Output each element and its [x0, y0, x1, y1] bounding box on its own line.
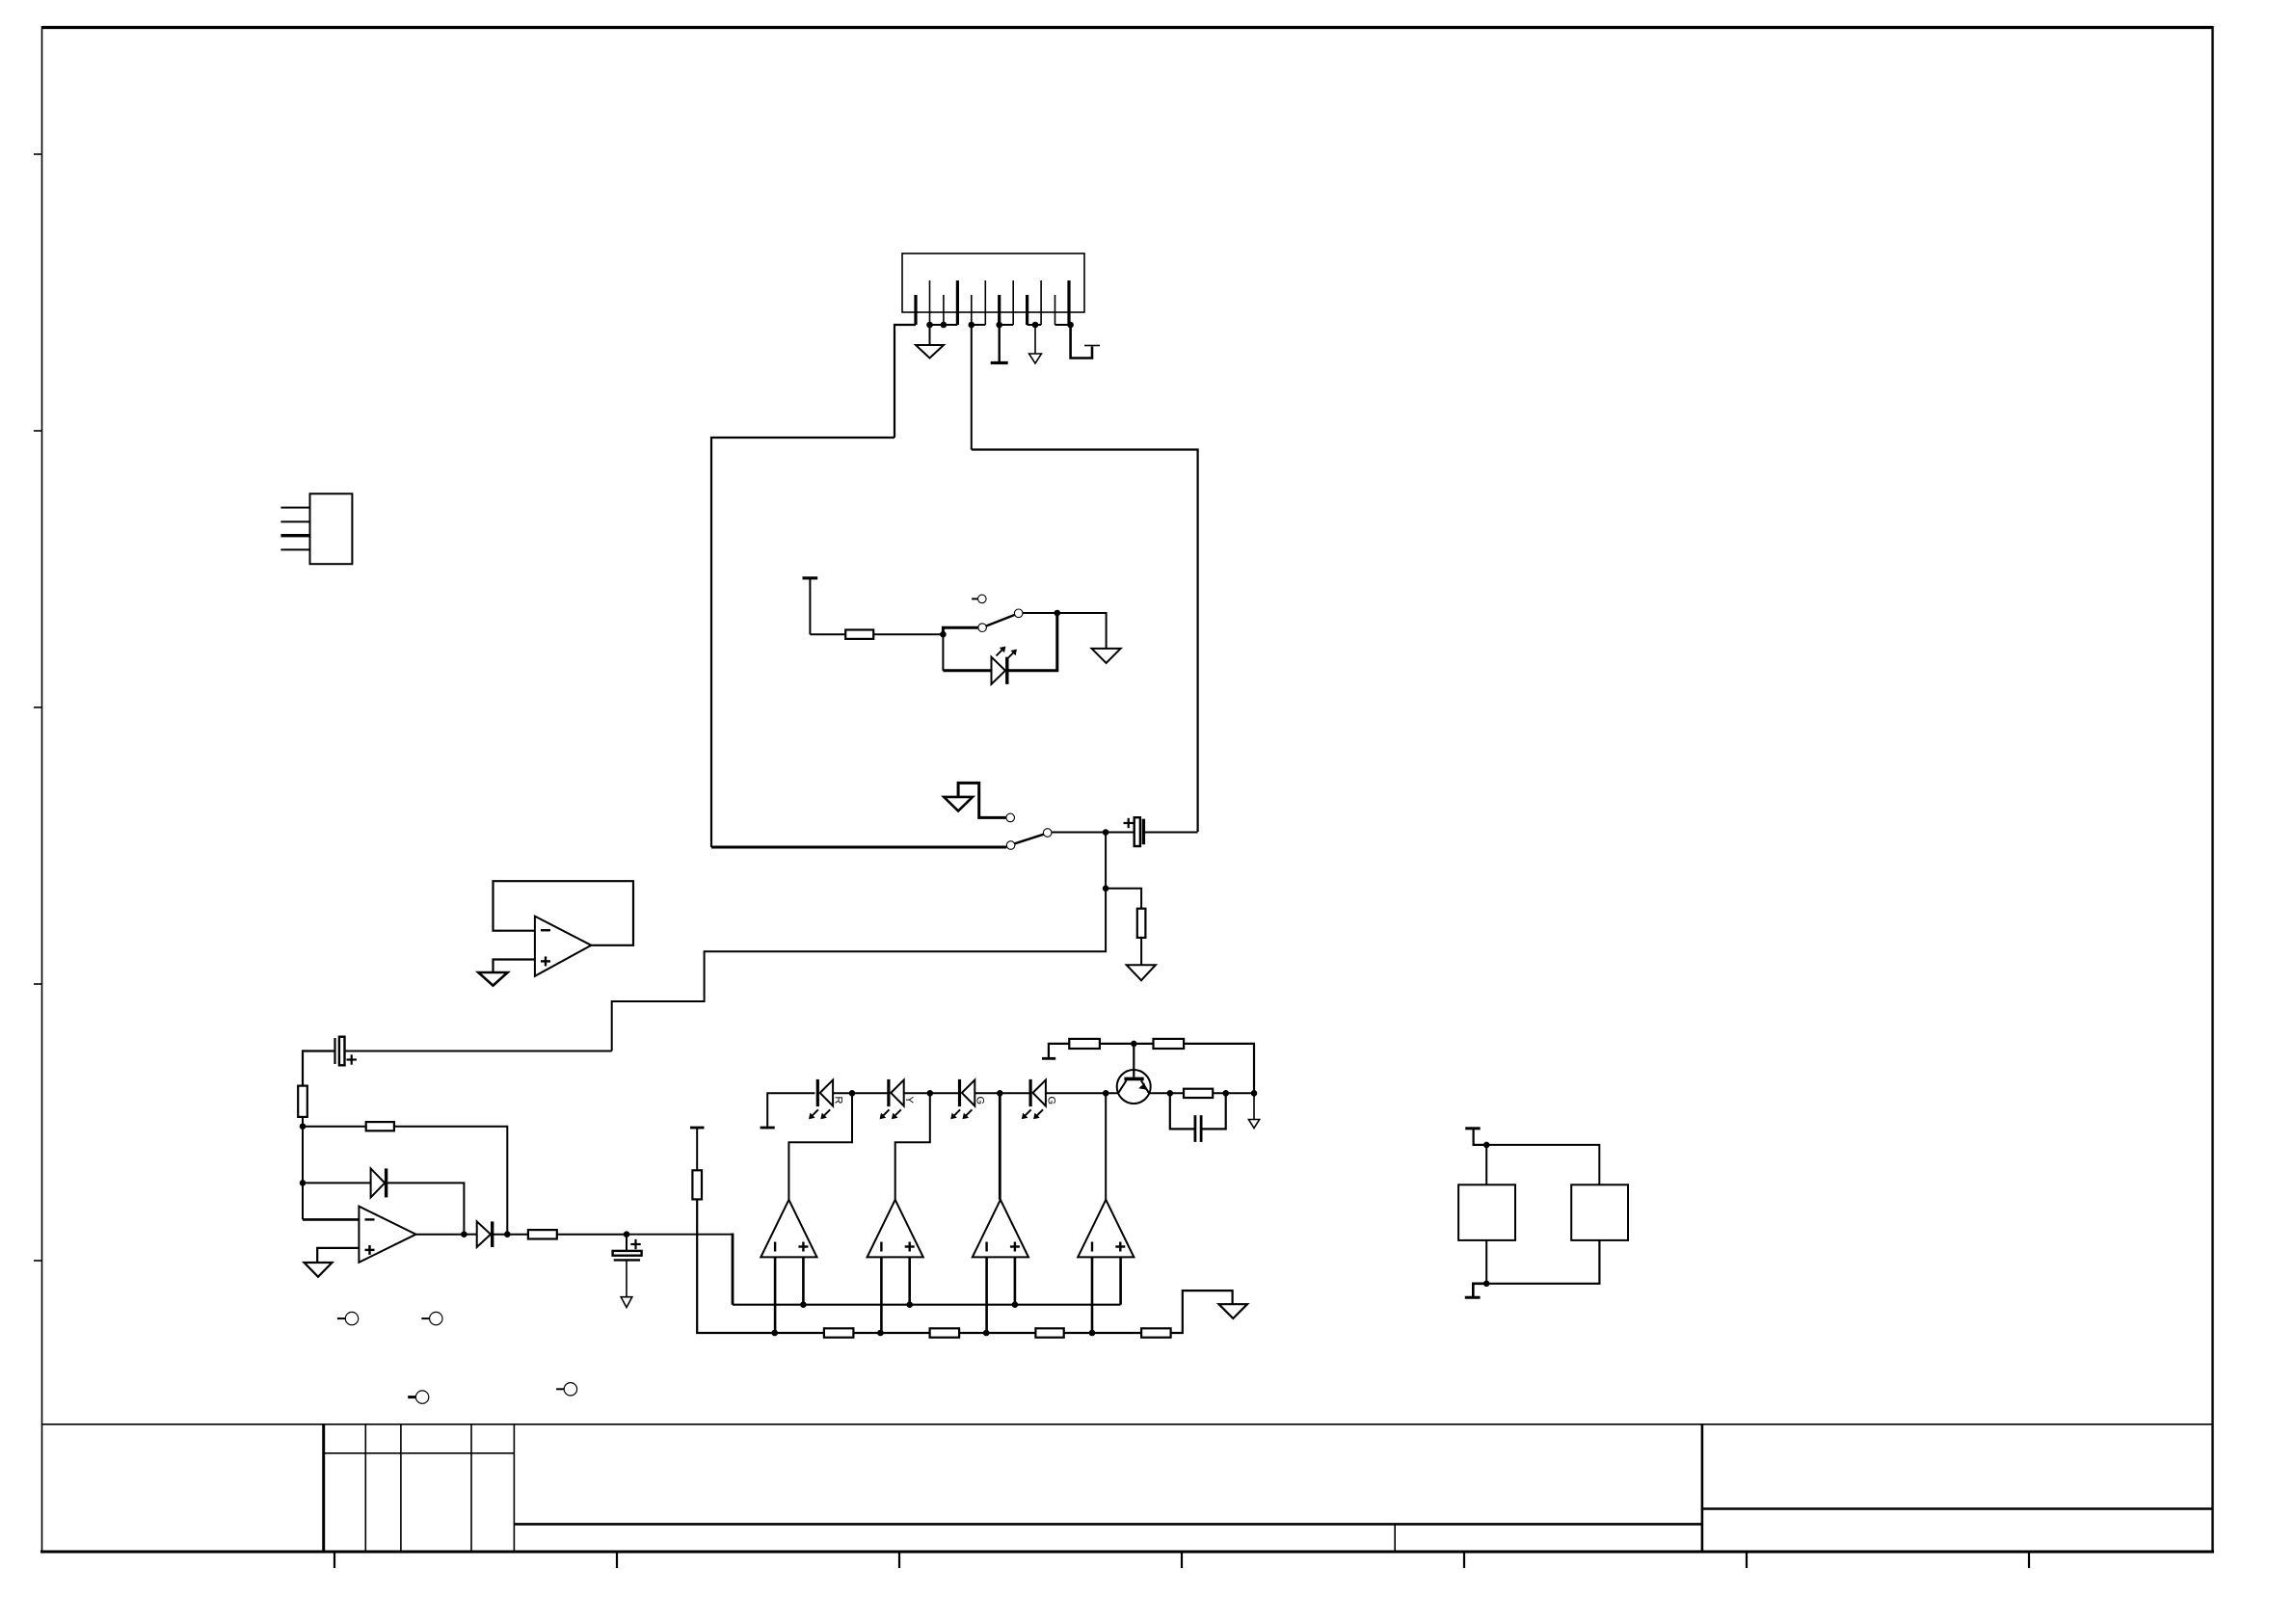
wire base [1133, 1044, 1135, 1078]
wire LED R to node [833, 1092, 888, 1094]
node I [624, 1232, 629, 1237]
wire node LED1 to U3 [788, 1093, 852, 1200]
resistor R-leg2 [692, 1170, 702, 1199]
wire U1 + input [494, 960, 535, 973]
rail stub T (right block) [1465, 1129, 1486, 1145]
wire R3 to node I [557, 1234, 627, 1236]
wire cap right long [346, 1051, 612, 1052]
op-amp U1 (buffer) [535, 917, 592, 976]
ground (below pulldown, open triangle) [1127, 965, 1156, 980]
ground with hook (switch box lower) [944, 783, 1014, 821]
wire node A down to LED [942, 634, 944, 671]
wire loop right [972, 450, 1198, 833]
wire node D zigzag to cap node [612, 889, 1106, 1051]
wire pin1 to logic box [894, 325, 916, 438]
switch SW1 blade [986, 615, 1014, 626]
wire minus-chain left leg [697, 1199, 775, 1333]
capacitor C4 (parallel) [1170, 1093, 1226, 1142]
ground (chain end, open triangle) [1219, 1304, 1248, 1318]
wire node LED2 to U4 [895, 1093, 930, 1200]
wire node B to ground [1057, 613, 1107, 649]
wire pin5 to switch box [971, 325, 973, 450]
wire leg down [302, 1117, 304, 1220]
wire R-par to node K [1213, 1092, 1254, 1094]
connector J2 (left, 4-pin) [280, 493, 352, 564]
wire pins 7-8 [1000, 324, 1014, 326]
node G [462, 1232, 467, 1237]
wire U2 + input [317, 1248, 359, 1263]
node M (base) [1132, 1041, 1137, 1047]
wire node O to box2 bottom [1486, 1240, 1599, 1284]
wire node I to bus corner [627, 1234, 733, 1236]
node J [1167, 1091, 1173, 1097]
capacitor C3 (polarized, at node I) [613, 1235, 642, 1308]
node N [1483, 1142, 1489, 1148]
wire pins 5-6 [972, 324, 986, 326]
node B [1055, 610, 1060, 616]
node pin2 [927, 322, 933, 328]
rail stub (hook) [1071, 325, 1100, 359]
wire node LED3 to U5 [999, 1093, 1001, 1200]
switch SW1 common contact [978, 624, 987, 632]
wire chain end to ground [1171, 1290, 1233, 1333]
wire node to switch [943, 627, 977, 634]
resistor R-leg [298, 1086, 307, 1117]
wire LED cathode to node B [1008, 613, 1057, 671]
wire LED Y to node [904, 1092, 959, 1094]
node C (battery junction) [1103, 830, 1108, 836]
svg-text:Y: Y [903, 1097, 915, 1104]
rail stub T (LED row left) [761, 1093, 815, 1128]
wire plus-bus [733, 1304, 1121, 1306]
node pins 9-10 [1032, 322, 1038, 328]
resistor R-feedback [366, 1122, 394, 1131]
wire throw to battery [1052, 832, 1135, 834]
resistor R-base-left [1069, 1039, 1100, 1049]
node U5 plus [1012, 1302, 1018, 1308]
wire R to ground [1140, 938, 1142, 965]
wire U5 inputs [987, 1257, 1015, 1333]
transistor Q1 [1117, 1070, 1151, 1104]
node chain1 [772, 1330, 778, 1336]
wire pins 11-12 [1055, 324, 1071, 326]
wire chain segments [775, 1332, 1141, 1334]
resistor R-pulldown [1137, 909, 1146, 938]
ground (U1, open triangle) [478, 972, 507, 986]
resistor Rc2 (chain) [930, 1328, 960, 1337]
ground (inner, open triangle) [1092, 649, 1121, 663]
capacitor C2 (polarized, lower-left) [335, 1037, 357, 1066]
switch SW1 throw contact [1014, 609, 1023, 618]
node O [1483, 1281, 1489, 1287]
wire LED G1 to node [975, 1092, 1030, 1094]
node pin3 [941, 322, 947, 328]
wire node N to box2 [1486, 1145, 1599, 1184]
node chain3 [983, 1330, 989, 1336]
LED DR (R) [809, 1079, 833, 1119]
rail stub T (base left) [1042, 1044, 1069, 1058]
op-amp U6 [1078, 1200, 1134, 1258]
rail stub T (right block bottom) [1465, 1284, 1486, 1298]
wire node H to R3 [494, 1234, 528, 1236]
wire U3 inputs [775, 1257, 803, 1333]
wire node C down [1105, 833, 1107, 889]
rail stub T (inner resistor) [803, 578, 818, 634]
resistor R3 [528, 1230, 557, 1238]
wire node N to box1 [1485, 1145, 1487, 1184]
resistor Rc4 (chain) [1141, 1328, 1171, 1337]
svg-text:G: G [1045, 1097, 1056, 1105]
wire node F to D2 [303, 1182, 371, 1184]
diode D3 [477, 1221, 493, 1247]
wire node L up and left [1184, 1044, 1254, 1093]
wire collector to node J [1149, 1092, 1184, 1094]
switch SW1 open throw contact [972, 595, 986, 603]
switch SW2 common contact [1006, 841, 1015, 850]
op-amp U2 [359, 1207, 415, 1263]
op-amp U5 [973, 1200, 1028, 1258]
pin P1 (unconnected) [337, 1312, 359, 1324]
resistor Rc1 (chain) [824, 1328, 854, 1337]
node F [300, 1181, 306, 1186]
diode D2 [371, 1168, 387, 1197]
LED DG2 (G) [1022, 1079, 1046, 1119]
node A (switch common) [941, 631, 947, 637]
node pin5 [969, 322, 974, 328]
wire D3 leads [464, 1234, 476, 1236]
node U3 plus [801, 1302, 807, 1308]
wire Rfb to corner [394, 1127, 507, 1235]
wire cap left to leg [303, 1051, 334, 1086]
resistor Rc3 (chain) [1035, 1328, 1063, 1337]
wire loop left (logic box outline) [711, 438, 894, 847]
resistor R-inner [845, 630, 873, 639]
node LED4 [1103, 1091, 1108, 1097]
wire to LED anode [943, 669, 991, 672]
wire box1 down [1485, 1240, 1487, 1284]
node H [505, 1232, 511, 1237]
op-amp U3 [761, 1200, 816, 1258]
wire node E to Rfb [303, 1126, 366, 1128]
node chain2 [878, 1330, 884, 1336]
capacitor C1 (polarized) [1124, 817, 1144, 846]
connector J1 (top) [902, 253, 1084, 325]
svg-text:R: R [833, 1097, 844, 1104]
block X1 [1458, 1184, 1515, 1240]
port arrow (open, down) [1029, 325, 1042, 363]
wire LED G2 to node [1046, 1092, 1118, 1094]
wire U2 output [416, 1234, 465, 1236]
block X2 [1571, 1184, 1628, 1240]
wire R to node [873, 633, 943, 635]
node pin12 [1068, 322, 1074, 328]
wire U2 - input [303, 1218, 359, 1221]
wire loop bottom [711, 846, 1006, 849]
switch SW2 blade [1015, 835, 1044, 844]
ground (U2, open triangle) [305, 1263, 333, 1277]
wire between base resistors [1100, 1043, 1154, 1045]
wire pins 2-4 [930, 324, 958, 326]
LED DY (Y) [880, 1079, 904, 1119]
wire D2 to corner [387, 1183, 465, 1234]
title block [42, 1424, 2213, 1552]
wire throw to node B [1023, 612, 1057, 614]
node D [1103, 886, 1108, 891]
resistor R-base-right [1154, 1039, 1185, 1049]
node LED3 [998, 1091, 1003, 1097]
wire node D to R-pulldown [1106, 889, 1141, 909]
ground (bar type) [991, 325, 1008, 363]
node LED2 [927, 1091, 933, 1097]
pin P3 (unconnected) [408, 1391, 429, 1403]
node L [1251, 1091, 1257, 1097]
ground (connector, open triangle) [916, 325, 944, 359]
switch SW2 throw contact [1043, 829, 1052, 838]
wire U6 inputs [1092, 1257, 1121, 1333]
node K [1223, 1091, 1229, 1097]
wire U4 inputs [881, 1257, 909, 1333]
wire node LED4 to U6 [1105, 1093, 1107, 1200]
wire feedback loop U1 [494, 881, 634, 945]
pin P2 (unconnected) [421, 1312, 442, 1324]
port arrow (node L, open down) [1248, 1093, 1259, 1128]
node E [300, 1124, 306, 1130]
rail stub T (chain leg) [690, 1128, 705, 1170]
LED D1 (emitting) [992, 647, 1018, 684]
pin P4 (unconnected) [556, 1383, 577, 1396]
wire pins 9-10 [1028, 324, 1042, 326]
wire to R inner [810, 633, 845, 635]
node LED1 [849, 1091, 855, 1097]
node U4 plus [907, 1302, 913, 1308]
node pin7 [997, 322, 1002, 328]
op-amp U4 [868, 1200, 923, 1258]
LED DG1 (G) [950, 1079, 974, 1119]
wire battery to loop right [1145, 832, 1198, 834]
node chain4 [1089, 1330, 1095, 1336]
resistor R-par [1184, 1089, 1213, 1098]
svg-text:G: G [974, 1097, 986, 1105]
